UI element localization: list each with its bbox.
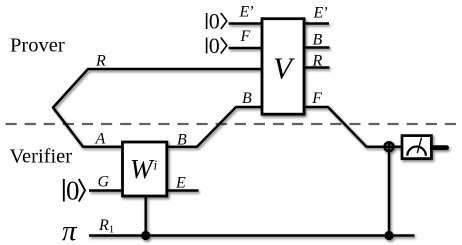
- wire B output (right of V): [304, 46, 330, 49]
- wire F from V down into XOR and meter: [304, 107, 402, 147]
- svg-text:A: A: [95, 130, 106, 147]
- wire control from W down to pi wire: [144, 194, 147, 236]
- svg-text:G: G: [98, 173, 110, 190]
- svg-text:0: 0: [66, 176, 80, 206]
- svg-text:0: 0: [209, 9, 220, 34]
- svg-text:B: B: [177, 131, 187, 148]
- ket |0> on F wire: [207, 33, 227, 58]
- XOR target symbol: [385, 142, 394, 151]
- junction dot on pi wire below XOR: [384, 231, 393, 240]
- svg-text:R1: R1: [98, 217, 114, 236]
- wire F input (left of V): [229, 47, 262, 50]
- svg-text:Prover: Prover: [10, 35, 65, 57]
- gate box V: [262, 19, 304, 115]
- svg-text:E’: E’: [239, 4, 254, 21]
- svg-text:F: F: [311, 90, 322, 107]
- junction dot on pi wire below W: [141, 231, 150, 240]
- svg-text:R: R: [312, 53, 323, 70]
- svg-text:B: B: [313, 31, 323, 48]
- wire E' input (left of V): [229, 22, 262, 25]
- svg-text:0: 0: [209, 33, 220, 58]
- meter gauge arc: [407, 147, 426, 156]
- wire G into W: [89, 189, 123, 192]
- gate box W^i: [123, 142, 167, 196]
- classical output stub: [433, 145, 447, 150]
- svg-text:V: V: [273, 51, 295, 86]
- wire pi horizontal: [89, 234, 415, 237]
- svg-text:B: B: [242, 90, 252, 107]
- svg-text:E’: E’: [313, 4, 328, 21]
- svg-text:R: R: [95, 53, 106, 70]
- dashed prover/verifier separator line: [6, 123, 457, 125]
- wire E' output (right of V): [304, 22, 329, 25]
- wire E out of W: [167, 189, 199, 192]
- meter needle: [417, 138, 421, 153]
- measurement meter box: [402, 136, 431, 159]
- ket |0> on G wire: [64, 176, 85, 206]
- svg-text:Verifier: Verifier: [10, 146, 73, 168]
- svg-text:E: E: [175, 174, 186, 191]
- wire B from W up into V: [167, 107, 262, 147]
- ket |0> on E' wire: [207, 9, 227, 34]
- svg-text:F: F: [240, 28, 251, 45]
- wire R into V with diagonals down to A into W: [53, 69, 262, 147]
- wire vertical from XOR down to pi wire: [388, 142, 391, 236]
- svg-text:π: π: [62, 215, 78, 245]
- wire R output (right of V): [304, 66, 330, 69]
